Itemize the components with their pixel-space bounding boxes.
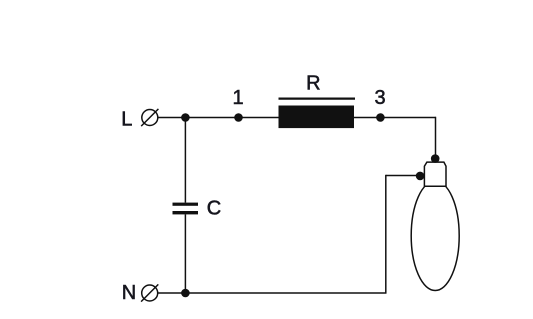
- lamp base cap: [424, 162, 446, 186]
- resistor R overline: [279, 97, 356, 99]
- svg-text:C: C: [207, 198, 221, 220]
- wire lamp side to vertical: [386, 175, 421, 177]
- wire capacitor bottom lead: [184, 214, 186, 293]
- node 3: [376, 113, 385, 122]
- wire corner down to lamp: [435, 117, 437, 159]
- lamp bulb ellipse: [411, 181, 459, 291]
- svg-text:1: 1: [232, 87, 243, 109]
- capacitor C bottom plate: [173, 211, 199, 214]
- node junction L-C: [181, 113, 190, 122]
- wire resistor to corner: [354, 117, 436, 119]
- wire L line: [158, 117, 279, 119]
- node 1: [234, 113, 243, 122]
- wire N line: [158, 292, 387, 294]
- node junction N-C: [181, 289, 190, 298]
- svg-text:N: N: [122, 282, 136, 304]
- capacitor C top plate: [173, 203, 199, 206]
- svg-text:R: R: [306, 72, 320, 94]
- lamp side pin dot: [416, 172, 425, 181]
- wire vertical lamp return: [385, 175, 387, 293]
- svg-text:3: 3: [374, 87, 385, 109]
- lamp top pin dot: [431, 154, 440, 163]
- terminal L: [141, 109, 158, 126]
- wire capacitor top lead: [184, 118, 186, 203]
- terminal N: [141, 284, 158, 301]
- svg-text:L: L: [121, 108, 132, 130]
- resistor R body: [279, 106, 355, 129]
